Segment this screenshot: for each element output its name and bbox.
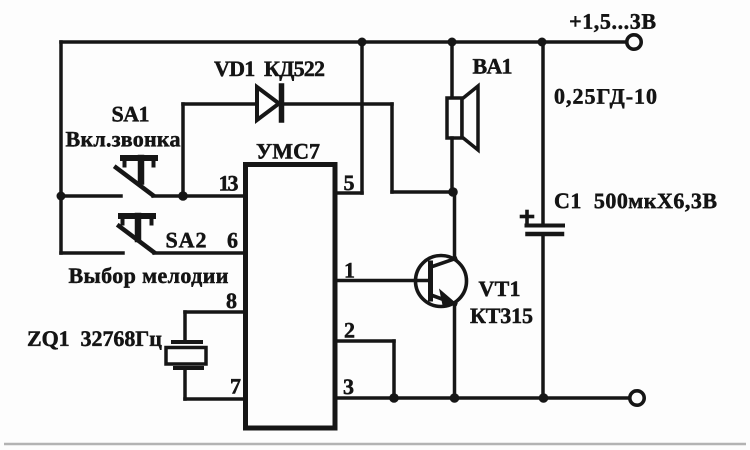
speaker BA1: [447, 86, 478, 150]
wire Vcc branch vertical: [360, 42, 364, 193]
wire speaker bottom vertical: [450, 138, 454, 192]
svg-text:6: 6: [227, 227, 238, 252]
svg-text:5: 5: [344, 170, 355, 195]
svg-text:0,25ГД-10: 0,25ГД-10: [554, 84, 657, 109]
wire pin 8 stub: [185, 310, 244, 314]
wire to collector node: [392, 190, 452, 194]
IC УМС7: [246, 165, 336, 429]
terminal +V: [627, 35, 641, 49]
node emitter junction: [450, 393, 460, 403]
node junction SA1 left: [57, 192, 66, 201]
node speaker top junction: [448, 38, 457, 47]
wire emitter vertical: [453, 303, 457, 398]
wire VD1 cathode vertical: [390, 104, 394, 192]
node junction SA1/VD1: [178, 191, 188, 201]
svg-text:SA2: SA2: [165, 227, 206, 252]
svg-text:УМС7: УМС7: [256, 138, 320, 163]
svg-text:Вкл.звонка: Вкл.звонка: [66, 126, 181, 151]
svg-text:BA1: BA1: [473, 54, 513, 79]
wire VD1 anode horizontal: [183, 102, 257, 106]
svg-text:Выбор мелодии: Выбор мелодии: [68, 263, 228, 288]
svg-text:8: 8: [226, 288, 237, 313]
wire crystal top vertical: [183, 312, 187, 342]
wire pin 1 base: [335, 279, 428, 283]
diode VD1: [257, 86, 282, 120]
node collector/speaker junction: [448, 187, 458, 197]
svg-text:1: 1: [344, 257, 355, 282]
wire speaker top vertical: [450, 42, 454, 98]
terminal minus: [630, 391, 644, 405]
svg-text:2: 2: [344, 317, 355, 342]
svg-text:3: 3: [343, 374, 354, 399]
scan artifact bottom line: [4, 443, 746, 445]
node pin2/3 junction: [389, 393, 399, 403]
wire left vertical: [59, 42, 63, 253]
svg-text:VT1: VT1: [478, 276, 520, 301]
wire C1 top vertical: [541, 42, 545, 224]
capacitor C1: [522, 212, 564, 235]
switch SA2: [119, 216, 154, 252]
svg-text:SA1: SA1: [112, 101, 150, 126]
node C1 bottom junction: [539, 393, 549, 403]
wire pin 2 stub: [335, 339, 394, 343]
wire bottom rail from pin 3: [335, 396, 630, 400]
wire pin 7 stub: [185, 397, 245, 401]
wire pin 5 stub: [335, 191, 362, 195]
wire VD1 cathode horizontal: [281, 102, 392, 106]
wire pin 2 vertical: [392, 341, 396, 398]
wire collector vertical: [453, 192, 457, 259]
svg-text:VD1 КД522: VD1 КД522: [214, 56, 325, 81]
svg-text:+1,5...3В: +1,5...3В: [569, 9, 656, 34]
wire crystal bottom vertical: [183, 368, 187, 399]
svg-text:13: 13: [219, 170, 239, 195]
transistor VT1: [416, 256, 467, 308]
node top rail Vcc branch: [358, 38, 367, 47]
node C1 top junction: [538, 38, 547, 47]
wire SA1 right contact to pin 13: [153, 194, 244, 198]
wire SA2 left contact: [61, 251, 123, 255]
svg-text:C1 500мкХ6,3В: C1 500мкХ6,3В: [554, 188, 717, 213]
svg-text:ZQ1 32768Гц: ZQ1 32768Гц: [27, 326, 162, 351]
wire C1 bottom vertical: [541, 235, 545, 398]
wire SA1 left contact: [61, 194, 121, 198]
svg-text:7: 7: [230, 373, 241, 398]
wire SA2 right contact to pin 6: [154, 251, 244, 255]
wire top rail: [61, 40, 627, 44]
switch SA1: [116, 158, 155, 195]
wire VD1 anode vertical: [181, 104, 185, 196]
crystal ZQ1: [166, 342, 206, 368]
svg-text:КТ315: КТ315: [470, 303, 533, 328]
